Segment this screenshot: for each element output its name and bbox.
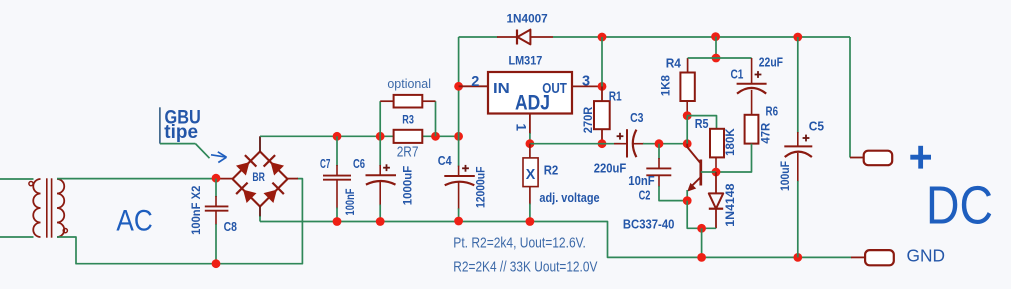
node C5 bottom bbox=[793, 253, 802, 262]
label C2 bbox=[639, 189, 651, 203]
svg-text:R3: R3 bbox=[402, 113, 414, 127]
svg-text:C8: C8 bbox=[224, 220, 237, 234]
svg-text:2: 2 bbox=[471, 74, 479, 90]
wire R2 bottom lead bbox=[529, 187, 531, 222]
svg-text:adj. voltage: adj. voltage bbox=[539, 190, 599, 205]
node C4 top / IN feed bbox=[454, 132, 463, 141]
wire C8 top lead bbox=[215, 179, 217, 206]
svg-text:180K: 180K bbox=[723, 128, 737, 156]
resistor R5 bbox=[710, 129, 724, 158]
wire collector vertical bbox=[686, 116, 688, 144]
label C7 bbox=[320, 157, 330, 171]
capacitor C2 bbox=[646, 168, 671, 175]
node collector junction bbox=[683, 139, 692, 148]
pin number 2 bbox=[471, 74, 479, 90]
resistor R6 bbox=[745, 115, 759, 144]
wire bridge minus stub bbox=[259, 207, 261, 222]
value 100uF bbox=[778, 161, 792, 191]
wire C2 bottom lead bbox=[659, 175, 687, 200]
svg-text:270R: 270R bbox=[581, 106, 595, 133]
label 1N4007 bbox=[506, 12, 547, 26]
value 2R7 bbox=[397, 145, 419, 161]
svg-text:R4: R4 bbox=[666, 56, 681, 70]
value 180K bbox=[723, 128, 737, 156]
wire top rail left bbox=[459, 36, 498, 38]
label DC bbox=[926, 175, 993, 235]
wire boost branch top bbox=[715, 37, 717, 58]
svg-text:BC337-40: BC337-40 bbox=[623, 218, 675, 232]
transistor Q1 base bar bbox=[699, 160, 702, 186]
label R5 bbox=[695, 117, 709, 131]
transistor Q1 collector lead bbox=[687, 144, 701, 164]
wire C5 top lead bbox=[797, 37, 799, 146]
svg-text:C1: C1 bbox=[730, 67, 743, 81]
capacitor C4 polarized bbox=[444, 176, 475, 185]
callout GBU tipe bbox=[160, 107, 227, 162]
wire C1 top lead bbox=[716, 58, 752, 84]
label IN pin name bbox=[493, 81, 510, 97]
terminal DC plus bbox=[864, 151, 893, 166]
bridge diode bottom-right bbox=[264, 183, 284, 203]
svg-text:1: 1 bbox=[514, 123, 529, 131]
label AC bbox=[116, 205, 152, 238]
svg-text:R6: R6 bbox=[766, 105, 779, 119]
wire D2 top lead bbox=[715, 172, 717, 193]
label BR bbox=[252, 170, 265, 184]
svg-text:GND: GND bbox=[907, 245, 946, 265]
wire D1 cathode lead bbox=[497, 36, 517, 38]
wire C6 bottom lead bbox=[379, 181, 381, 222]
wire ADJ pin bbox=[529, 114, 531, 144]
wire bridge AC2 lead bbox=[287, 178, 298, 180]
wire plus terminal lead bbox=[850, 157, 865, 159]
label C4 bbox=[438, 154, 452, 168]
label C3 bbox=[630, 111, 643, 125]
wire C4 bottom lead bbox=[458, 182, 460, 221]
svg-text:C2: C2 bbox=[639, 189, 651, 203]
node rail-emitter junction bbox=[697, 253, 706, 262]
wire positive rail bbox=[260, 135, 459, 137]
value 1000uF bbox=[401, 166, 415, 205]
plus mark C4 bbox=[462, 165, 469, 172]
value 1N4148 bbox=[723, 183, 737, 227]
bridge diode top-left bbox=[236, 155, 256, 175]
svg-text:tipe: tipe bbox=[164, 121, 198, 143]
label LM317 bbox=[509, 55, 543, 67]
plus mark C1 bbox=[755, 71, 762, 78]
transistor Q1 base lead bbox=[701, 171, 716, 173]
transformer TR1 core bbox=[47, 178, 52, 237]
svg-text:C6: C6 bbox=[353, 157, 365, 171]
value 47R bbox=[759, 122, 773, 143]
node C2 top junction bbox=[655, 139, 664, 148]
node AC1 junction bbox=[212, 174, 221, 183]
wire C6 top lead bbox=[379, 136, 381, 175]
svg-text:C7: C7 bbox=[320, 157, 330, 171]
wire C3 right lead bbox=[634, 143, 688, 145]
capacitor C5 polarized bbox=[784, 146, 812, 157]
pin number 1 bbox=[514, 123, 529, 131]
svg-text:220uF: 220uF bbox=[594, 161, 627, 175]
label R1 bbox=[609, 89, 622, 103]
node R4 bottom junction bbox=[683, 111, 692, 120]
transformer TR1 secondary winding bbox=[57, 179, 64, 237]
wire emitter to rail bbox=[687, 201, 716, 229]
label C5 bbox=[809, 119, 824, 133]
capacitor C6 polarized bbox=[366, 175, 397, 184]
svg-text:BR: BR bbox=[252, 170, 265, 184]
bridge rectifier BR body bbox=[233, 152, 288, 207]
transformer polarity dot primary bbox=[29, 182, 33, 186]
node C6 bottom bbox=[376, 217, 385, 226]
bridge diode top-right bbox=[264, 155, 284, 175]
wire C2 top lead bbox=[658, 144, 660, 169]
wire R4 bottom lead bbox=[686, 101, 688, 116]
transistor Q1 emitter lead bbox=[687, 177, 701, 192]
label C1 bbox=[730, 67, 743, 81]
wire C7 top lead bbox=[336, 136, 338, 175]
wire bridge plus stub bbox=[259, 136, 261, 151]
node ADJ junction bbox=[526, 139, 535, 148]
wire R5 bottom lead bbox=[715, 157, 717, 172]
pin number 3 bbox=[582, 73, 590, 89]
svg-text:1N4007: 1N4007 bbox=[506, 12, 547, 26]
svg-text:22uF: 22uF bbox=[759, 55, 783, 69]
node boost branch split bbox=[712, 54, 721, 63]
resistor R3 optional bbox=[394, 95, 423, 108]
label adj. voltage bbox=[539, 190, 599, 205]
transformer polarity dot secondary bbox=[63, 229, 67, 233]
svg-text:12000uF: 12000uF bbox=[474, 167, 488, 208]
capacitor C3 polarized bbox=[627, 129, 636, 157]
label C6 bbox=[353, 157, 365, 171]
node base junction bbox=[712, 168, 721, 177]
value 270R bbox=[581, 106, 595, 133]
diode D1 1N4007 bbox=[517, 30, 530, 45]
svg-text:100uF: 100uF bbox=[778, 161, 792, 191]
value 100nF bbox=[343, 189, 357, 216]
wire IN feed vertical bbox=[458, 37, 460, 136]
node R3 right bbox=[431, 132, 440, 141]
capacitor C7 bbox=[323, 176, 351, 180]
resistor R4 bbox=[680, 73, 694, 102]
note line 2 bbox=[453, 259, 597, 275]
svg-text:C4: C4 bbox=[438, 154, 452, 168]
wire ADJ line left bbox=[530, 143, 621, 145]
value 220uF bbox=[594, 161, 627, 175]
capacitor C8 bbox=[205, 206, 229, 210]
wire R4 to R5 bbox=[687, 116, 716, 129]
svg-text:10nF: 10nF bbox=[628, 174, 655, 188]
value 22uF bbox=[759, 55, 783, 69]
label optional bbox=[387, 76, 431, 91]
capacitor C1 polarized bbox=[737, 84, 767, 94]
wire AC input bottom bbox=[0, 236, 34, 238]
svg-text:47R: 47R bbox=[759, 122, 773, 143]
label R3 bbox=[402, 113, 414, 127]
wire join down bbox=[701, 228, 703, 257]
resistor R3 2R7 series bbox=[394, 130, 423, 143]
node R2 bottom bbox=[526, 217, 535, 226]
value 10nF bbox=[628, 174, 655, 188]
wire R3 optional left lead bbox=[380, 101, 393, 136]
node C5 top bbox=[793, 33, 802, 42]
svg-text:C5: C5 bbox=[809, 119, 824, 133]
wire OUT pin bbox=[572, 85, 602, 87]
svg-text:100nF: 100nF bbox=[343, 189, 357, 216]
svg-text:1K8: 1K8 bbox=[659, 75, 673, 96]
node C7 top bbox=[333, 132, 342, 141]
op-amp U1 LM317 body bbox=[488, 72, 572, 114]
wire C7 bottom lead bbox=[336, 180, 338, 222]
svg-text:100nF X2: 100nF X2 bbox=[189, 185, 203, 235]
svg-text:LM317: LM317 bbox=[509, 55, 543, 67]
wire D1 anode lead bbox=[530, 36, 553, 38]
node C7 bottom bbox=[333, 217, 342, 226]
wire R1 bottom lead bbox=[601, 129, 603, 144]
wire C5 bottom lead bbox=[797, 153, 799, 258]
label GND bbox=[907, 245, 946, 265]
bridge diode bottom-left bbox=[236, 183, 256, 203]
label tipe bbox=[164, 121, 198, 143]
label plus sign bbox=[910, 146, 931, 169]
wire negative rail bbox=[260, 222, 852, 258]
wire bridge AC1 lead bbox=[216, 178, 234, 180]
plus mark C5 bbox=[803, 135, 810, 142]
svg-text:3: 3 bbox=[582, 73, 590, 89]
plus mark C3 bbox=[617, 133, 624, 140]
wire secondary bottom to bridge AC2 bbox=[57, 179, 302, 264]
note line 1 bbox=[453, 236, 586, 252]
svg-text:AC: AC bbox=[116, 205, 152, 238]
wire AC input top bbox=[0, 178, 34, 180]
label C8 bbox=[224, 220, 237, 234]
wire R6 bottom lead bbox=[716, 144, 752, 172]
wire C3 left lead bbox=[614, 143, 627, 145]
svg-text:R5: R5 bbox=[695, 117, 709, 131]
svg-text:IN: IN bbox=[493, 81, 510, 97]
label R6 bbox=[766, 105, 779, 119]
node OUT pin junction bbox=[598, 82, 607, 91]
label OUT pin name bbox=[542, 81, 567, 97]
wire R2 top lead bbox=[529, 144, 531, 158]
svg-text:1000uF: 1000uF bbox=[401, 166, 415, 205]
wire OUT vertical bbox=[601, 37, 603, 102]
label BC337-40 bbox=[623, 218, 675, 232]
svg-text:Pt. R2=2k4, Uout=12.6V.: Pt. R2=2k4, Uout=12.6V. bbox=[453, 236, 586, 252]
wire D2 bottom lead bbox=[715, 209, 717, 229]
svg-text:optional: optional bbox=[387, 76, 431, 91]
value 100nF X2 bbox=[189, 185, 203, 235]
svg-text:R1: R1 bbox=[609, 89, 622, 103]
transformer TR1 primary winding bbox=[33, 179, 40, 237]
wire C4 top lead bbox=[458, 136, 460, 176]
label R2 bbox=[544, 162, 559, 177]
svg-text:2R7: 2R7 bbox=[397, 145, 419, 161]
node IN pin junction bbox=[454, 82, 463, 91]
svg-text:1N4148: 1N4148 bbox=[723, 183, 737, 227]
svg-text:C3: C3 bbox=[630, 111, 643, 125]
wire C8 bottom lead bbox=[215, 211, 217, 264]
node OUT top bbox=[598, 33, 607, 42]
svg-text:ADJ: ADJ bbox=[515, 91, 550, 115]
node C6 top bbox=[376, 132, 385, 141]
wire emitter down bbox=[686, 190, 688, 201]
svg-text:X: X bbox=[526, 166, 536, 183]
node C8 bottom junction bbox=[212, 259, 221, 268]
value 12000uF bbox=[474, 167, 488, 208]
value 1K8 bbox=[659, 75, 673, 96]
wire secondary top to bridge bbox=[57, 178, 217, 180]
plus mark C6 bbox=[383, 164, 390, 171]
terminal GND bbox=[865, 250, 894, 265]
node C4 bottom bbox=[454, 217, 463, 226]
node emitter junction bbox=[683, 196, 692, 205]
diode D2 1N4148 bbox=[709, 193, 723, 208]
label R4 bbox=[666, 56, 681, 70]
node R1 bottom junction bbox=[598, 139, 607, 148]
wire top rail right bbox=[553, 37, 850, 158]
wire R4 top lead bbox=[688, 58, 716, 73]
resistor R1 bbox=[594, 101, 610, 129]
node emitter-diode join bbox=[697, 224, 706, 233]
label ADJ pin name bbox=[515, 91, 550, 115]
wire R3 optional right lead bbox=[422, 101, 435, 136]
svg-text:R2: R2 bbox=[544, 162, 559, 177]
resistor R2 bbox=[523, 158, 538, 187]
svg-text:R2=2K4 // 33K Uout=12.0V: R2=2K4 // 33K Uout=12.0V bbox=[453, 259, 597, 275]
svg-text:DC: DC bbox=[926, 175, 993, 235]
label GBU bbox=[165, 106, 201, 128]
wire IN pin bbox=[459, 85, 488, 87]
wire C1 bottom lead bbox=[751, 90, 753, 115]
wire GND terminal lead bbox=[851, 256, 866, 258]
node boost branch top bbox=[711, 32, 720, 41]
label X in R2 bbox=[526, 166, 536, 183]
